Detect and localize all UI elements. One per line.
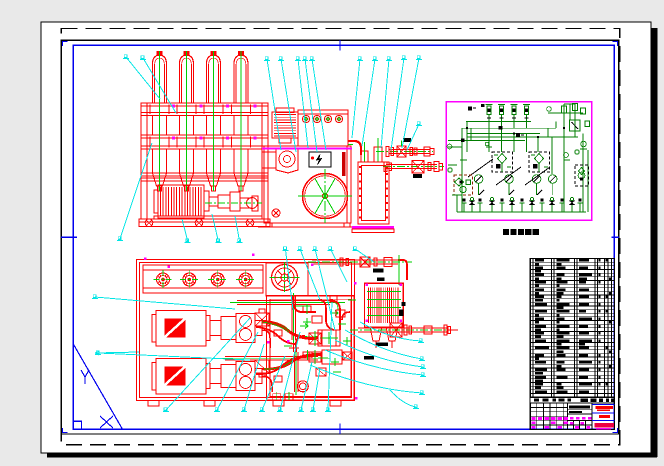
fitting f8 [274,330,282,336]
black tag 8 [402,302,406,306]
BOM row lines [530,258,614,260]
schem bus line 4 [462,140,525,142]
cooler plan core [368,288,370,323]
outer frame border [61,40,619,434]
leader line 1 [126,57,160,99]
schem wire [555,121,557,128]
sheet shadow right [652,28,658,457]
title middle black bar 2 [569,411,582,413]
magenta dot [168,266,170,268]
centering tick top [339,40,341,50]
schem label A [461,139,465,143]
manifold block 2 [322,350,342,364]
tee fitting [289,344,299,352]
right run tail [448,329,458,331]
BOM table frame [530,259,614,398]
leader line 32 [345,330,422,359]
pipe run B centerline [383,166,444,168]
fan unit square [266,263,308,296]
schem crossing arrow 2 [496,167,521,185]
elbow fitting small [318,300,326,320]
accumulator top 1 [157,273,170,286]
black tag 6 [376,343,388,347]
schem wire [582,134,584,212]
schem bus line 2 [467,133,540,135]
pipe run A centerline [376,151,433,153]
BOM header row [530,397,614,403]
schem right dashed box [575,165,589,186]
vertical pipe 1 [291,296,293,340]
accumulator top 4 [239,273,252,286]
schem left dashed box [454,175,473,195]
leader line 5 [212,214,218,241]
schem wire [569,104,571,120]
schem bottom left branch [456,195,458,212]
green arrow mark [300,324,308,329]
rack frame outer [141,103,268,219]
leader line 20 [355,249,374,262]
tank bolt [272,209,280,217]
leader line 36 [390,390,416,407]
black tag 2 [413,174,422,178]
bottle 4 green centerline [240,51,242,191]
schem valve symbol [551,205,553,212]
valve station dashed box [529,152,550,172]
hose curve 2 [262,355,322,369]
fold mark Y symbol [81,370,89,384]
green tick g2 [318,357,328,359]
corner mark bottom-left [63,428,68,433]
rack shelf band 3 [141,173,268,181]
fitting f2 [312,316,322,323]
vertical pipe 2 [293,352,295,392]
schem wire [587,150,589,212]
fold mark corner square [73,421,81,429]
leader line 35 [310,365,422,393]
schem wire [547,128,549,137]
magenta dot [252,254,254,256]
title block frame [530,403,614,429]
accumulator top 3 [211,273,224,286]
discharge elbow A [330,300,340,318]
hose curve 3 [256,327,296,344]
tank plan [267,296,355,400]
cooler base [352,226,394,229]
electrical box [309,152,331,167]
pipe net p2 [262,354,322,369]
motor M1 flange [204,191,209,211]
schem wire [470,128,472,140]
schem valve symbol [531,205,533,212]
pump P1 [230,192,240,211]
schem tank symbol [501,203,503,212]
leader line 33 [335,340,423,367]
fitting f1 [303,306,311,312]
schem label C [481,104,485,107]
schem bus line 0 [466,120,531,122]
BOM column lines [532,259,534,398]
schem label Y [499,126,503,130]
fold mark leader [95,351,140,355]
schem tank symbol [561,203,563,212]
schem bottom bus [457,211,586,213]
pipe net p5 [339,318,341,330]
accumulator bottle 4 [234,52,248,192]
schem valve symbol [471,205,473,212]
valve cluster 2 [255,360,269,373]
small motor fins [274,114,296,116]
main tank [264,146,351,223]
green arrow mark2 [330,311,338,316]
fold mark X symbol [100,416,113,428]
filler cap [335,115,342,122]
tank feet [266,223,272,227]
vent box [298,110,348,146]
magenta joint [254,105,257,108]
elbow e2 [262,376,272,392]
skid foot [148,401,159,407]
rack base [139,219,270,227]
fan top view [272,265,298,291]
schem wire [501,128,503,152]
schem left box symbols [455,178,464,186]
magenta corner dot [399,319,402,322]
leader line 27 [280,332,300,410]
title right red text 2 [599,415,610,418]
schem valve symbol [491,205,493,212]
fan crosshair [324,169,326,223]
magenta dot [355,397,357,399]
accumulator bottle 3 [207,52,221,192]
schem wire [574,104,576,131]
pipe net p1 [262,322,316,339]
leader line 19 [331,249,348,282]
schem tank symbol [579,203,581,212]
sheet shadow bottom [47,453,657,458]
schematic box border [446,102,592,221]
br pipe centerline [308,261,412,263]
skid outer frame [137,260,355,401]
skid foot [204,401,215,407]
green plus 2 [331,361,339,363]
leader line 13 [362,59,375,146]
schem wire [563,104,565,212]
green tick g3 [333,371,341,373]
br elbow [398,260,407,280]
valve station filter [498,154,507,164]
bottle 3 green centerline [213,51,215,191]
schem wire [537,137,539,152]
magenta dot [311,264,313,266]
fitting f9 [274,376,282,382]
motor plan M1 hatch [164,318,185,337]
schem crossing arrow 3 [525,167,550,185]
hose curve 4 [256,358,300,374]
black tag 5 [399,310,404,317]
magenta dot [287,340,289,342]
schem relief valve [570,120,581,131]
rack shelf band 2 [141,135,268,149]
leader line 21 [300,249,320,300]
accumulator top 2 [183,273,196,286]
leader line 16 [402,58,419,148]
small motor M2 [272,112,298,138]
magenta joint [172,137,175,140]
corner mark bottom-right [613,428,618,433]
leader line 37 [95,297,235,309]
magenta corner dot [365,284,368,287]
schem wire [466,121,468,152]
skid bottom rail [137,400,355,402]
motor plan M2 hatch [164,366,185,385]
schem pump circle 2 [505,175,514,184]
right run pipes [358,327,448,329]
skid inner frame [140,263,352,398]
small motor flange [279,138,291,143]
title right frame [592,404,615,406]
leader line 30 [328,302,332,410]
leader line 2 [143,58,176,113]
manifold block 1 [318,330,340,346]
schem pump circle 3 [532,175,541,184]
schem left gauge 2 [448,168,452,172]
green plus 1 [303,321,311,323]
pump centerline [205,202,262,204]
leader line 10 [305,59,317,152]
schem bus line 3 [467,136,578,138]
shelf clamp ticks [149,105,151,115]
schem misc gauge [564,153,569,158]
centering tick right [612,236,620,238]
schem tank symbol [479,203,481,212]
green tick g4 [348,299,356,301]
magenta corner dot [365,319,368,322]
pump plan P1 [221,316,236,339]
leader line 22 [315,249,335,330]
centering tick bottom [339,424,341,435]
base foot bolt [246,219,254,227]
leader line 6 [235,216,240,241]
filler cap [313,115,320,122]
motor pedestal [154,216,262,219]
magenta joint [226,137,229,140]
leader line 29 [313,368,320,410]
discharge pipe B [225,355,318,357]
dashed trim border [61,29,619,445]
magenta dot [144,258,146,260]
tank bottom fittings [273,394,281,400]
leader line 7 [267,59,281,150]
leader line 3 [120,143,152,239]
elbow e1 [262,330,270,348]
base foot bolt [145,219,153,227]
motor M1 body [158,185,204,218]
cooler tank [358,162,389,224]
blue inner frame [73,45,614,429]
right run valve [390,323,402,337]
valve station dashed box [492,152,513,172]
leader line 23 [166,318,250,410]
fan spokes [325,195,345,197]
fitting f7 [343,352,352,360]
motor M1 left cap [154,190,158,213]
valve V1 [397,146,406,157]
corner mark top-right [613,42,618,47]
lightning symbol [317,155,322,165]
motor plan M1 body [156,310,206,346]
schem top right cluster [548,112,583,114]
leader line 18 [285,249,293,310]
green tick g1 [300,305,310,307]
fitting f5 [336,310,345,317]
run A flanges [386,147,389,157]
pump P2 housing [276,148,298,173]
schem accumulator 3 [512,106,516,115]
bottle 2 green centerline [186,51,188,191]
rack shelf band 1 [141,103,268,116]
leader line 31 [360,322,421,341]
valve V2 [412,161,424,174]
pipe net p4 [296,336,305,352]
centering tick left [61,236,77,238]
br pipe [312,259,398,261]
schem label B [516,133,520,137]
filler cap [324,115,331,122]
motor plan M1 coupling [206,315,210,340]
leader line 24 [217,332,258,410]
filler cap [302,115,309,122]
schem mid ticks [509,190,514,195]
pump plan P2 [221,364,236,387]
fan guard [303,174,348,219]
title middle black bar 1 [569,405,590,408]
bottle 1 green centerline [159,51,161,191]
pipe run B [386,164,437,166]
valve cluster 1 [255,313,269,326]
schem wire [513,134,515,152]
black tag 4 [377,278,385,282]
schem wire [461,128,463,212]
right run flanges [404,325,407,335]
magenta joint [200,105,203,108]
schem accumulator 4 [525,106,529,115]
schem tank symbol [521,203,523,212]
valve sub2 [309,352,321,362]
pipe run A [389,149,430,151]
right run centerline [350,329,456,331]
leader line 9 [298,59,308,148]
schem pump circle 1 [474,175,483,184]
magenta dot [267,341,269,343]
leader line 11 [312,59,326,150]
level gauge [342,152,346,176]
cooler outlet funnels [370,327,382,341]
valve station filter [535,154,544,164]
valve sub1 [309,333,321,344]
discharge pipe A [237,299,330,301]
fitting f3 [303,352,312,358]
title middle magenta cells [570,417,574,420]
pipe net p3 [293,296,295,302]
magenta joint [226,105,229,108]
magenta joint [172,105,175,108]
accumulator bottle 1 [153,52,167,192]
leader line 25 [244,344,264,410]
hose curve 1 [262,321,318,338]
title right red text 3 [595,423,615,427]
schem accumulator 1 [487,106,491,115]
schem wire [526,134,528,152]
pipe net p6 [326,320,334,330]
br valve [360,257,370,267]
leader line 28 [301,362,312,410]
cooler plan body [365,283,404,327]
schem junction dots [466,127,468,129]
fold mark triangle [73,344,122,429]
schem crossing arrow 1 [468,159,493,177]
leader line 17 [407,124,419,150]
corner mark top-left [63,42,68,47]
schem pump circle 4 [548,175,557,184]
schem tank symbol [541,203,543,212]
motor plan M2 coupling [206,363,210,388]
schem left stub 1 [448,140,462,142]
schem misc tick 2 [460,159,467,161]
coupling [209,197,218,206]
schem check valve right [581,141,587,147]
schem right box symbols [578,172,585,179]
schem accumulator 2 [500,106,504,115]
schem tank symbol [463,203,465,212]
rack left rail [146,103,148,219]
leader line 26 [262,356,285,410]
green plus 4 [343,340,351,342]
schem misc tick 1 [486,146,492,148]
fitting f4 [316,368,326,376]
black tag 1 [403,138,411,142]
schem valve symbol [511,205,513,212]
run B flanges [384,162,387,172]
leader line 14 [381,59,389,148]
leader line 4 [182,219,188,241]
cooler top fittings [361,151,368,162]
run B fittings [428,163,431,171]
magenta rail [262,148,352,150]
title block left grid [536,403,538,429]
run A fittings [410,148,413,156]
motor M1 fins [160,187,162,216]
elbow pipe [348,141,361,155]
schem wire [551,137,553,174]
motor plan M2 body [156,358,206,394]
tank base line [258,226,356,228]
fitting f6 [330,296,337,302]
black tag 7 [364,356,374,360]
title block magenta cells [531,417,535,420]
schem wire [488,128,490,152]
manifold green cross 1 [320,337,338,339]
magenta joint [200,137,203,140]
leader line 8 [281,59,296,152]
rack right rail [261,103,263,219]
schem bus line 1 [462,127,556,129]
BOM text blobs [535,259,544,262]
base foot bolt [195,219,203,227]
caption text [503,229,509,235]
magenta corner dot [399,284,402,287]
electrical box dot [311,156,314,159]
leader line 15 [391,58,404,150]
